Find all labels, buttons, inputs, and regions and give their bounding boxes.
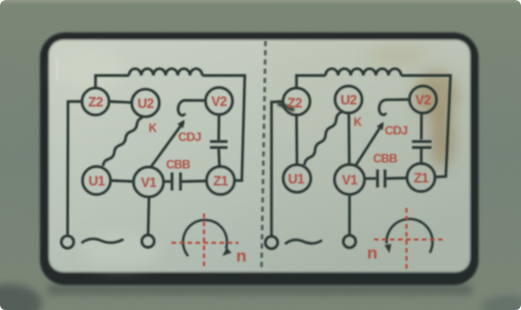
wire: Z2 top to coil to right rail down to Z1 (96, 76, 130, 89)
wire: V1 to CBB capacitor (right) (365, 177, 377, 180)
wire: Z2 to U2 (110, 102, 132, 103)
wire: CBB to Z1 (right) (387, 177, 408, 180)
wire: CBB to Z1 (182, 180, 207, 183)
shadow band below sticker (0, 284, 521, 310)
wire: U2 down to V1 (347, 113, 350, 165)
capacitor CBB plates (172, 173, 181, 191)
winding U1-U2 (main winding, wavy) (103, 118, 143, 167)
wire: Z2 left to left rail down to terminal A (right) (272, 102, 284, 237)
rotation direction arc n (clockwise) (183, 220, 227, 256)
red labels, left diagram (88, 94, 246, 266)
dark smudge near Z2 (right) (280, 104, 293, 110)
red dashed crosshair (left rotation) (172, 214, 239, 270)
AC source symbol ~ (82, 239, 124, 243)
terminal circle U2 (132, 89, 160, 117)
red labels, right diagram (287, 93, 430, 263)
wire: V1 to CBB capacitor (164, 180, 171, 183)
terminal circle U2 (right) (335, 86, 362, 113)
terminal circle Z1 (207, 167, 235, 195)
film grain (0, 0, 1, 1)
wire: Z2 left to left rail down to terminal A (68, 102, 82, 236)
switch K fixed contact from V2 (178, 100, 205, 115)
switch K fixed contact from V2 (right) (379, 100, 409, 115)
wire: CDJ to Z1 (217, 149, 221, 167)
wire: CDJ to Z1 (right) (420, 149, 423, 164)
sticker face (49, 40, 470, 272)
wire: V1 down to terminal B (147, 197, 151, 235)
terminal circle Z2 (82, 88, 109, 115)
terminal circle U1 (right) (283, 165, 311, 193)
switch K moving arm (right) (355, 125, 382, 167)
inductor L (start winding coil, right) (326, 69, 402, 76)
capacitor CDJ plates (210, 142, 228, 148)
wire: U1 to V1 (111, 181, 134, 182)
capacitor CDJ plates (right) (412, 142, 432, 148)
wire: Z2 down to U1 (295, 115, 298, 165)
AC source symbol ~ (right) (285, 240, 322, 244)
terminal circle V2 (right) (410, 86, 437, 113)
supply terminal B (142, 235, 154, 247)
stains on sticker (55, 46, 458, 268)
wire: coil to top-right corner, right rail down, into Z1 (401, 76, 450, 178)
supply terminal A (61, 236, 73, 248)
wire: V2 down to CDJ capacitor (right) (420, 113, 423, 140)
switch K arrowhead (left) (177, 120, 184, 128)
switch K arrowhead (right) (377, 122, 384, 130)
wire: coil to top-right corner, right rail down, into Z1 (202, 76, 245, 181)
rotation direction arc n (counter-clockwise, right) (387, 219, 433, 253)
terminal circle V1 (134, 167, 164, 197)
wire: Z2 top to coil to right rail down to Z1 (297, 76, 326, 89)
capacitor CBB plates (right) (378, 170, 386, 188)
terminal circle Z2 (right) (283, 88, 310, 115)
wire: V1 down to terminal B (right) (348, 195, 351, 236)
divider dashed line between diagrams (262, 41, 266, 268)
red dashed crosshair (right rotation) (374, 208, 446, 270)
white photo corner roundings (0, 0, 6, 5)
rotation arrowhead (right) (385, 244, 392, 253)
terminal circle U1 (83, 167, 111, 195)
terminal circle Z1 (right) (407, 164, 435, 192)
sticker black border (40, 33, 479, 286)
winding U2-U1 (main winding, wavy, right) (305, 112, 342, 165)
inductor L (start winding coil) (129, 69, 202, 76)
switch K moving arm (151, 122, 184, 168)
supply terminal A (right) (265, 236, 277, 248)
terminal circle V2 (206, 88, 233, 115)
rotation arrowhead (left) (222, 247, 231, 256)
wire: V2 down to CDJ capacitor (217, 115, 220, 140)
terminal circle V1 (right) (335, 165, 365, 195)
supply terminal B (right) (343, 235, 355, 247)
scratch on border (56, 58, 58, 80)
